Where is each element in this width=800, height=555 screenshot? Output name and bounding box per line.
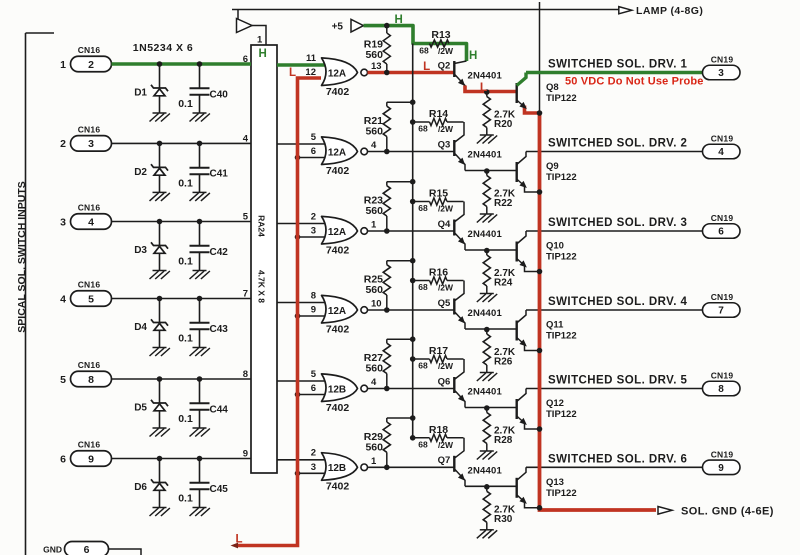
capacitor C45 — [190, 459, 210, 508]
label SWITCHED SOL. DRV. 5 — [548, 375, 688, 387]
nor gate 12A row1 (7402) — [322, 58, 368, 86]
svg-text:1N5234 X 6: 1N5234 X 6 — [133, 42, 193, 54]
svg-text:CN19: CN19 — [711, 134, 734, 144]
svg-text:68: 68 — [418, 282, 428, 292]
svg-text:L: L — [289, 67, 296, 79]
label R24 — [494, 278, 513, 289]
svg-text:/2W: /2W — [438, 124, 454, 134]
svg-text:12A: 12A — [328, 306, 346, 317]
gate pin labels row6 — [311, 448, 377, 473]
wire SWITCHED SOL. DRV. 3 — [526, 230, 703, 232]
svg-text:7: 7 — [243, 289, 248, 300]
label R23 — [364, 195, 383, 207]
ground under R24 — [477, 294, 497, 303]
svg-text:TIP122: TIP122 — [546, 331, 577, 342]
label Q2 — [438, 60, 451, 71]
wire gate5 output — [368, 388, 455, 390]
svg-text:68: 68 — [418, 203, 428, 213]
transistor Q7 2N4401 — [454, 438, 467, 487]
svg-text:8: 8 — [311, 290, 316, 301]
svg-text:/2W: /2W — [438, 204, 454, 214]
svg-text:2: 2 — [311, 211, 316, 222]
label 4.7K X 8 — [257, 270, 267, 303]
label 560 row3 — [365, 205, 383, 217]
svg-text:L: L — [423, 61, 430, 73]
pin label 5 (RA24) — [243, 212, 249, 223]
node rail elbow row2 — [410, 99, 416, 105]
svg-text:R30: R30 — [494, 514, 513, 525]
node row6 diode junction — [157, 456, 163, 462]
connector CN16 pin 3 — [71, 136, 112, 152]
wire row4 gate lower input — [298, 315, 331, 317]
label 560 row6 — [365, 441, 383, 453]
svg-text:12A: 12A — [328, 68, 346, 79]
svg-text:CN19: CN19 — [711, 292, 734, 302]
label GND — [43, 544, 62, 554]
label CN19 row5 — [711, 371, 734, 381]
svg-text:7: 7 — [718, 306, 724, 317]
row5 number — [60, 374, 66, 386]
svg-text:2N4401: 2N4401 — [468, 150, 503, 161]
wire Q6 emitter to Q12 base — [465, 407, 517, 409]
ground under R20 — [477, 135, 497, 144]
connector CN19 pin 7 — [703, 303, 741, 318]
svg-text:4: 4 — [88, 216, 94, 228]
node Q10 emitter on ground rail — [537, 269, 543, 275]
svg-text:560: 560 — [365, 205, 383, 217]
svg-text:2N4401: 2N4401 — [468, 229, 503, 240]
label Q8 — [546, 82, 559, 93]
node emitter junction row4 — [484, 327, 490, 333]
svg-text:2: 2 — [60, 138, 66, 150]
svg-text:4: 4 — [371, 377, 377, 388]
svg-text:1: 1 — [371, 456, 377, 467]
wire gate2 output — [368, 151, 455, 153]
svg-text:4.7K X 8: 4.7K X 8 — [257, 270, 267, 303]
zener diode D1 — [151, 64, 168, 113]
wire center bias rail — [412, 44, 414, 438]
wire row5 RA24 to gate — [277, 380, 330, 382]
label TIP122 row2 — [546, 172, 577, 183]
left margin bracket — [26, 33, 55, 555]
wire row6 RA24 to gate — [277, 459, 330, 461]
capacitor C43 — [190, 299, 210, 348]
svg-text:R13: R13 — [431, 29, 450, 41]
svg-text:560: 560 — [365, 363, 383, 375]
label SWITCHED SOL. DRV. 2 — [548, 138, 687, 150]
zener diode D2 — [151, 143, 168, 192]
label 560 row4 — [365, 284, 383, 296]
svg-text:SWITCHED SOL. DRV. 4: SWITCHED SOL. DRV. 4 — [548, 296, 688, 308]
label 1/2W row6 — [438, 440, 454, 450]
wire row4 RA24 to gate — [277, 302, 330, 304]
resistor R29 560 — [383, 418, 413, 467]
label 0.1 row2 — [178, 178, 193, 190]
wire row3 RA24 to gate — [277, 223, 330, 225]
resistor R15 68 1/2W — [413, 198, 464, 205]
label TIP122 row5 — [546, 409, 577, 420]
label L rail bottom — [235, 533, 242, 545]
ground under D2 — [150, 192, 170, 201]
wire GND connector — [109, 549, 142, 555]
label 12A — [328, 68, 346, 79]
label 12B — [328, 384, 346, 395]
label TIP122 row1 — [546, 93, 577, 104]
svg-text:6: 6 — [718, 227, 724, 238]
label CN16 row5 — [78, 360, 101, 370]
label 7402 row6 — [326, 481, 350, 493]
node Q11 emitter on ground rail — [537, 348, 543, 354]
label CN16 row6 — [78, 440, 101, 450]
ground under C43 — [190, 348, 210, 357]
node row6 on red rail — [295, 471, 301, 477]
node row5 on red rail — [295, 392, 301, 398]
svg-text:D6: D6 — [134, 482, 147, 493]
label H +5 — [394, 14, 402, 26]
ground under C44 — [190, 428, 210, 437]
wire Q4 emitter to Q10 base — [465, 249, 517, 251]
svg-text:3: 3 — [311, 462, 316, 473]
ground under R26 — [477, 373, 497, 382]
svg-text:R18: R18 — [429, 424, 448, 436]
svg-text:R17: R17 — [429, 345, 448, 357]
svg-text:6: 6 — [311, 146, 316, 157]
label SWITCHED SOL. DRV. 3 — [548, 217, 687, 229]
svg-text:L: L — [480, 80, 487, 94]
node row5 diode junction — [157, 376, 163, 382]
svg-text:RA24: RA24 — [257, 215, 267, 237]
label Q6 — [438, 376, 451, 387]
connector CN19 pin 3 — [703, 65, 741, 80]
label TIP122 row6 — [546, 488, 577, 499]
svg-text:SPICAL SOL. SWITCH INPUTS: SPICAL SOL. SWITCH INPUTS — [16, 181, 28, 332]
svg-text:TIP122: TIP122 — [546, 409, 577, 420]
resistor R13 68 1/2W — [430, 40, 450, 47]
node Q12 emitter on ground rail — [537, 426, 543, 432]
svg-text:C41: C41 — [210, 169, 229, 180]
node row4 diode junction — [157, 296, 163, 302]
wire SWITCHED SOL. DRV. 6 — [526, 466, 703, 468]
capacitor C42 — [190, 222, 210, 271]
label R17 — [429, 345, 448, 357]
resistor R26 2.7K — [483, 330, 490, 373]
connector CN16 pin 8 — [71, 371, 112, 387]
svg-text:C42: C42 — [210, 247, 229, 258]
svg-text:Q5: Q5 — [438, 298, 451, 309]
svg-text:5: 5 — [60, 374, 66, 386]
svg-text:5: 5 — [88, 293, 94, 305]
svg-text:/2W: /2W — [438, 46, 454, 56]
svg-text:R28: R28 — [494, 435, 513, 446]
wire row2 input — [112, 142, 252, 144]
label 1/2W row2 — [438, 124, 454, 134]
wire vertical net to Q8 emitter node — [539, 2, 541, 113]
svg-text:68: 68 — [418, 124, 428, 134]
svg-text:/2W: /2W — [438, 440, 454, 450]
label R19 — [364, 39, 383, 51]
svg-text:LAMP (4-8G): LAMP (4-8G) — [636, 5, 703, 17]
svg-text:8: 8 — [243, 369, 248, 380]
resistor R14 68 1/2W — [413, 118, 464, 125]
label CN19 row1 — [711, 55, 734, 65]
svg-text:/2W: /2W — [438, 361, 454, 371]
node row2 on red rail — [295, 155, 301, 161]
gate pin labels row1 — [305, 53, 381, 78]
svg-text:1: 1 — [60, 59, 66, 71]
wire row1 RA24 to gate (green) — [277, 63, 330, 67]
label D3 — [134, 245, 147, 256]
svg-text:Q11: Q11 — [546, 320, 564, 331]
node emitter junction row6 — [484, 484, 490, 490]
nor gate 12A row4 (7402) — [322, 295, 368, 323]
label CN19 row4 — [711, 292, 734, 302]
node row1 diode junction — [157, 61, 163, 67]
label R16 — [429, 267, 448, 279]
label 68 row3 — [418, 203, 428, 213]
label 0.1 row1 — [178, 98, 193, 110]
svg-text:R14: R14 — [429, 108, 448, 120]
node gate3 output junction — [384, 228, 390, 234]
label 2.7K row1 — [494, 110, 516, 121]
label 2.7K row6 — [494, 504, 516, 515]
label L Q2 emitter — [480, 80, 487, 94]
node rail elbow row4 — [410, 258, 416, 264]
svg-text:7402: 7402 — [326, 86, 350, 98]
label 7402 row4 — [326, 323, 350, 335]
svg-text:11: 11 — [306, 53, 317, 64]
node rail R68 junction row6 — [410, 435, 416, 441]
node gate6 output junction — [384, 465, 390, 471]
resistor R20 2.7K — [483, 92, 490, 135]
zener diode D5 — [151, 379, 168, 428]
svg-text:D1: D1 — [134, 88, 147, 99]
label 560 row2 — [365, 126, 383, 138]
wire row3 gate lower input — [298, 236, 331, 238]
svg-text:9: 9 — [718, 463, 724, 474]
arrow to LAMP — [619, 7, 632, 14]
svg-text:C40: C40 — [210, 89, 229, 100]
node row1 cap junction — [197, 61, 203, 67]
transistor Q12 TIP122 — [517, 389, 540, 430]
wire row1 input (green H) — [112, 62, 252, 66]
label CN19 row6 — [711, 450, 734, 460]
resistor R17 68 1/2W — [413, 355, 464, 362]
svg-text:TIP122: TIP122 — [546, 93, 577, 104]
label L gate1 output — [423, 61, 430, 73]
svg-text:R22: R22 — [494, 198, 513, 209]
svg-text:10: 10 — [371, 299, 382, 310]
label 1/2W row4 — [438, 283, 454, 293]
zener diode D3 — [151, 222, 168, 271]
zener diode D4 — [151, 299, 168, 348]
svg-text:H: H — [394, 14, 402, 26]
svg-text:9: 9 — [88, 453, 94, 465]
gate pin labels row3 — [311, 211, 377, 236]
svg-text:560: 560 — [365, 441, 383, 453]
svg-text:7402: 7402 — [326, 165, 350, 177]
label R15 — [429, 188, 448, 200]
svg-text:SWITCHED SOL. DRV. 3: SWITCHED SOL. DRV. 3 — [548, 217, 687, 229]
label Q4 — [438, 219, 451, 230]
svg-text:0.1: 0.1 — [178, 98, 193, 110]
resistor R30 2.7K — [483, 487, 490, 530]
connector CN19 pin 9 — [703, 460, 741, 475]
svg-text:6: 6 — [60, 453, 66, 465]
label R22 — [494, 198, 513, 209]
node gate1 output junction — [384, 70, 390, 76]
svg-text:68: 68 — [419, 46, 429, 56]
wire gate6 output — [368, 466, 455, 468]
resistor R28 2.7K — [483, 408, 490, 451]
label 68 row6 — [418, 439, 428, 449]
node row4 on red rail — [295, 313, 301, 319]
wire SWITCHED SOL. DRV. 5 — [526, 388, 703, 390]
svg-text:CN19: CN19 — [711, 371, 734, 381]
svg-text:12B: 12B — [328, 463, 346, 474]
svg-text:Q9: Q9 — [546, 161, 559, 172]
connector CN16 pin 4 — [71, 214, 112, 230]
svg-text:2N4401: 2N4401 — [468, 465, 503, 476]
svg-text:4: 4 — [718, 147, 724, 158]
node Q9 emitter on ground rail — [537, 189, 543, 195]
svg-text:0.1: 0.1 — [178, 493, 193, 505]
svg-text:68: 68 — [418, 439, 428, 449]
label R18 — [429, 424, 448, 436]
nor gate 12B row5 (7402) — [322, 374, 368, 402]
svg-text:C45: C45 — [210, 484, 229, 495]
ground under D5 — [150, 428, 170, 437]
svg-text:2: 2 — [88, 59, 94, 71]
connector CN19 pin 6 — [703, 224, 741, 239]
svg-text:CN19: CN19 — [711, 450, 734, 460]
svg-text:TIP122: TIP122 — [546, 488, 577, 499]
label 50 VDC warning — [565, 75, 704, 87]
node rail R68 junction row2 — [410, 119, 416, 125]
svg-text:R16: R16 — [429, 267, 448, 279]
svg-text:SOL. GND (4-6E): SOL. GND (4-6E) — [681, 505, 774, 517]
label Q3 — [438, 139, 451, 150]
row1 number — [60, 59, 66, 71]
resistor R23 560 — [383, 182, 413, 231]
ground under D3 — [150, 271, 170, 280]
transistor Q3 2N4401 — [454, 122, 467, 171]
label SWITCHED SOL. DRV. 6 — [548, 454, 687, 466]
svg-text:TIP122: TIP122 — [546, 252, 577, 263]
svg-text:Q6: Q6 — [438, 376, 451, 387]
label 2N4401 row2 — [468, 150, 503, 161]
label 7402 row5 — [326, 402, 350, 414]
label 7402 row1 — [326, 86, 350, 98]
svg-text:SWITCHED SOL. DRV. 2: SWITCHED SOL. DRV. 2 — [548, 138, 687, 150]
label 2.7K row4 — [494, 347, 516, 358]
svg-text:5: 5 — [311, 369, 317, 380]
resistor R25 560 — [383, 261, 413, 310]
svg-text:Q2: Q2 — [438, 60, 451, 71]
transistor Q8 TIP122 — [517, 73, 540, 114]
label 68 row4 — [418, 282, 428, 292]
svg-text:6: 6 — [84, 544, 90, 555]
wire row6 gate lower input — [298, 472, 331, 474]
row2 number — [60, 138, 66, 150]
label Q13 — [546, 477, 564, 488]
node emitter junction row2 — [484, 168, 490, 174]
label Q5 — [438, 298, 451, 309]
label 12A — [328, 306, 346, 317]
node Q8 emitter on ground rail — [537, 110, 543, 116]
svg-text:CN16: CN16 — [78, 360, 101, 370]
svg-text:L: L — [235, 533, 242, 545]
svg-text:CN16: CN16 — [78, 45, 101, 55]
node +5 junction — [384, 23, 390, 29]
wire Q2 emitter to Q8 base (red L) — [465, 86, 517, 92]
label Q12 — [546, 398, 564, 409]
node emitter junction row5 — [484, 405, 490, 411]
svg-text:560: 560 — [365, 284, 383, 296]
label 12A — [328, 147, 346, 158]
gate pin labels row2 — [311, 132, 377, 157]
wire Q7 emitter to Q13 base — [465, 485, 517, 487]
label 68 row5 — [418, 361, 428, 371]
svg-text:9: 9 — [311, 305, 316, 316]
svg-text:3: 3 — [60, 216, 66, 228]
rotated label SPICAL SOL. SWITCH INPUTS — [16, 181, 28, 332]
wire row4 input — [112, 298, 252, 300]
svg-text:7402: 7402 — [326, 481, 350, 493]
label 1/2W row5 — [438, 361, 454, 371]
svg-text:5: 5 — [243, 212, 249, 223]
ground under C42 — [190, 271, 210, 280]
gate pin labels row5 — [311, 369, 377, 394]
node emitter junction row3 — [484, 248, 490, 254]
nor gate 12B row6 (7402) — [322, 453, 368, 481]
svg-text:1: 1 — [371, 220, 377, 231]
label R20 — [494, 119, 513, 130]
svg-text:D4: D4 — [134, 322, 147, 333]
label R29 — [364, 431, 383, 443]
transistor Q9 TIP122 — [517, 152, 540, 193]
label 0.1 row5 — [178, 413, 193, 425]
label 560 row1 — [365, 49, 383, 61]
transistor Q11 TIP122 — [517, 310, 540, 351]
label SWITCHED SOL. DRV. 4 — [548, 296, 688, 308]
label SOL. GND (4-6E) — [681, 505, 774, 517]
svg-text:3: 3 — [311, 226, 316, 237]
svg-text:GND: GND — [43, 544, 62, 554]
transistor Q13 TIP122 — [517, 467, 540, 508]
label 1/2W row1 — [438, 46, 454, 56]
label CN19 row3 — [711, 213, 734, 223]
nor gate 12A row2 (7402) — [322, 137, 368, 165]
wire red L rail — [238, 78, 321, 546]
label 12B — [328, 463, 346, 474]
svg-text:7402: 7402 — [326, 244, 350, 256]
pin label 6 (RA24) — [243, 54, 248, 65]
label R30 — [494, 514, 513, 525]
svg-text:Q12: Q12 — [546, 398, 564, 409]
row3 number — [60, 216, 66, 228]
wire SWITCHED SOL. DRV. 1 (green) — [526, 71, 703, 75]
ground under C41 — [190, 192, 210, 201]
label 68 row1 — [419, 46, 429, 56]
label 7402 row3 — [326, 244, 350, 256]
label 2N4401 row3 — [468, 229, 503, 240]
svg-text:560: 560 — [365, 126, 383, 138]
arrowhead red L rail end — [231, 543, 239, 549]
svg-text:SWITCHED SOL. DRV. 6: SWITCHED SOL. DRV. 6 — [548, 454, 687, 466]
arrow to SOL. GND — [658, 507, 672, 515]
svg-text:1: 1 — [257, 35, 263, 46]
svg-text:Q3: Q3 — [438, 139, 451, 150]
